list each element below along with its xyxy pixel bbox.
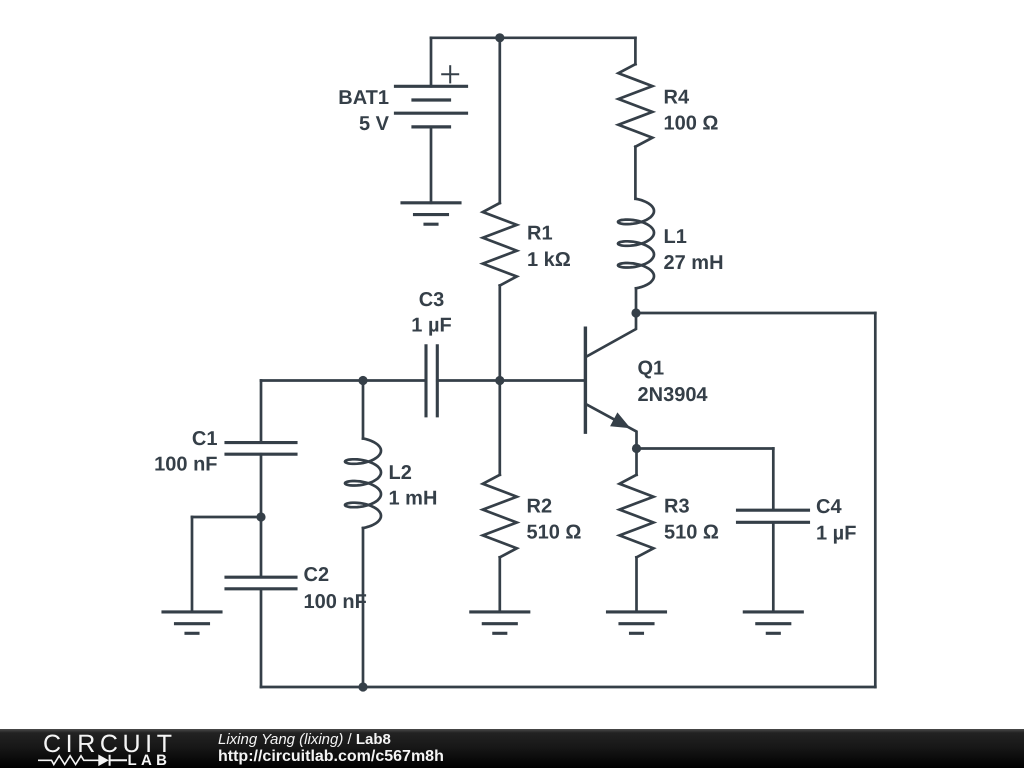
svg-text:LAB: LAB <box>128 752 172 768</box>
svg-text:L1: L1 <box>664 226 687 248</box>
svg-text:100 nF: 100 nF <box>304 591 367 613</box>
wire collector node to right rail <box>636 312 875 315</box>
capacitor C3 <box>426 346 437 416</box>
wire C4 top lead <box>772 449 775 511</box>
node dot base junction <box>495 376 504 385</box>
capacitor C4 <box>738 510 809 522</box>
transistor Q1 base bar <box>584 328 587 432</box>
svg-text:R2: R2 <box>527 495 553 517</box>
ground below R2 <box>471 612 529 633</box>
svg-text:BAT1: BAT1 <box>338 87 389 109</box>
wire battery top lead <box>430 38 433 87</box>
wire R4 top drop <box>634 38 637 64</box>
svg-text:510 Ω: 510 Ω <box>527 521 582 543</box>
capacitor C2 <box>226 577 296 589</box>
svg-text:R1: R1 <box>527 223 553 245</box>
svg-text:R4: R4 <box>664 86 690 108</box>
wire L2 top lead <box>362 381 365 439</box>
resistor R1 <box>483 203 517 286</box>
wire R2 to ground <box>498 557 501 612</box>
svg-text:100 nF: 100 nF <box>154 453 217 475</box>
transistor Q1 emitter arrow <box>610 412 630 428</box>
wire battery bottom lead <box>430 127 433 203</box>
footer url line <box>218 748 444 766</box>
wire L2 bottom lead <box>362 528 365 687</box>
transistor Q1 emitter lead <box>587 405 637 449</box>
wire left rail bottom segment <box>260 589 263 687</box>
footer bar <box>0 729 1024 768</box>
wire C4 to ground <box>772 522 775 612</box>
svg-text:510 Ω: 510 Ω <box>664 521 719 543</box>
wire C3 to base node <box>437 379 500 382</box>
wire C2 to C1 segment <box>260 454 263 577</box>
battery plus sign <box>442 66 458 82</box>
ground below R3 <box>608 612 666 633</box>
wire base node to Q1 base <box>500 379 586 382</box>
node dot collector <box>631 308 640 317</box>
battery BAT1 plates <box>396 86 467 127</box>
svg-text:R3: R3 <box>664 495 690 517</box>
CircuitLab logo <box>0 729 220 768</box>
svg-text:C2: C2 <box>304 564 330 586</box>
svg-text:5 V: 5 V <box>359 113 390 135</box>
ground below C1/C2 spur <box>163 612 221 633</box>
svg-text:2N3904: 2N3904 <box>638 384 709 406</box>
ground below battery <box>402 203 460 224</box>
svg-text:C1: C1 <box>192 428 218 450</box>
wire R1 bottom to base node <box>498 286 501 381</box>
ground below C4 <box>744 612 802 633</box>
logo resistor zigzag <box>38 756 99 765</box>
transistor Q1 collector lead <box>587 313 637 357</box>
wire top rail V+ <box>431 36 635 39</box>
resistor R4 <box>618 64 652 147</box>
node dot L2 bottom <box>358 682 367 691</box>
wire ground spur vertical <box>191 517 194 612</box>
node dot top rail <box>495 33 504 42</box>
wire ground spur horizontal <box>192 516 261 519</box>
wire C1 to top-left corner <box>260 381 263 443</box>
wire R3 to ground <box>635 557 638 612</box>
wire emitter node to R3 <box>635 449 638 475</box>
svg-text:1 mH: 1 mH <box>389 488 438 510</box>
svg-text:1 kΩ: 1 kΩ <box>527 249 571 271</box>
wire R4 to L1 <box>634 147 637 199</box>
wire L1 to collector node <box>635 288 638 313</box>
capacitor C1 <box>226 443 296 455</box>
svg-text:27 mH: 27 mH <box>664 252 724 274</box>
resistor R2 <box>483 475 517 558</box>
svg-text:100 Ω: 100 Ω <box>664 113 719 135</box>
node dot C1-C2 junction <box>256 512 265 521</box>
svg-text:Q1: Q1 <box>638 357 665 379</box>
svg-text:1 µF: 1 µF <box>411 315 451 337</box>
footer author line <box>218 731 391 748</box>
svg-text:1 µF: 1 µF <box>816 522 856 544</box>
wire base node to R2 <box>498 381 501 475</box>
wire emitter node to C4 <box>637 447 774 450</box>
wire top-left horizontal to C3 <box>261 379 426 382</box>
node dot L2 top <box>358 376 367 385</box>
wire R1 rail from top node <box>498 38 501 203</box>
node dot emitter <box>632 444 641 453</box>
wire right rail <box>874 313 877 687</box>
inductor L2 <box>345 439 381 529</box>
svg-text:L2: L2 <box>389 462 412 484</box>
logo diode <box>99 755 108 765</box>
svg-text:C3: C3 <box>419 289 445 311</box>
svg-text:C4: C4 <box>816 496 842 518</box>
resistor R3 <box>620 475 654 558</box>
inductor L1 <box>618 199 654 289</box>
wire bottom rail <box>261 686 875 689</box>
